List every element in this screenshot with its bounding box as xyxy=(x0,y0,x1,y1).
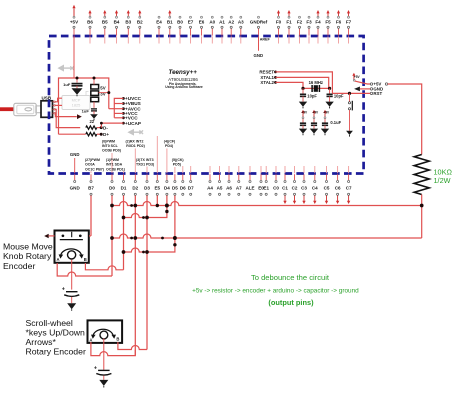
svg-text:D1: D1 xyxy=(121,185,127,190)
svg-text:E4: E4 xyxy=(156,19,162,24)
svg-text:A: A xyxy=(56,257,59,262)
svg-text:(0)PWM: (0)PWM xyxy=(102,139,115,143)
wire UVCC/VBUS bus xyxy=(114,98,123,117)
svg-text:RXD1 PD2): RXD1 PD2) xyxy=(126,144,145,148)
svg-text:E6: E6 xyxy=(199,19,205,24)
svg-text:1uF: 1uF xyxy=(63,82,71,87)
svg-text:AREF: AREF xyxy=(260,38,271,42)
svg-text:GND: GND xyxy=(254,53,264,58)
svg-text:Encoder: Encoder xyxy=(3,261,35,271)
svg-text:C3: C3 xyxy=(301,185,307,190)
pin E4 (top) xyxy=(156,16,162,43)
svg-text:+UCAP: +UCAP xyxy=(125,121,141,126)
pin C3 (bottom) xyxy=(301,166,307,204)
svg-text:INT1 SDA: INT1 SDA xyxy=(106,163,123,167)
wire USB pin2 to regulator xyxy=(55,104,62,106)
wire ENC1 pin A to D0 xyxy=(57,263,112,276)
svg-text:USB: USB xyxy=(41,95,51,100)
wire ENC2 pin A to D2 xyxy=(91,342,135,356)
svg-text:E5: E5 xyxy=(155,185,161,190)
ground (below C6) xyxy=(99,380,108,386)
wire GNDRef to GND xyxy=(258,36,260,50)
svg-text:GND: GND xyxy=(70,185,81,190)
Teensy++ board outline (dashed) xyxy=(49,36,364,174)
ground (below C1) xyxy=(72,88,83,95)
terminal +5V xyxy=(370,83,372,85)
capacitor 0.1uF #3 xyxy=(322,122,328,124)
svg-text:D-: D- xyxy=(103,125,108,130)
ground (left arrow, ENC1 switch) xyxy=(44,234,49,239)
pin D2 (bottom) xyxy=(132,149,138,356)
svg-text:RESET: RESET xyxy=(259,70,274,75)
svg-text:B3: B3 xyxy=(125,19,131,24)
ground (right-pointing, USB shield) xyxy=(77,114,82,119)
svg-text:PD4): PD4) xyxy=(165,144,173,148)
pin B4 (top) xyxy=(114,10,120,44)
svg-text:(1)PWM: (1)PWM xyxy=(106,158,119,162)
pin A4 (bottom) xyxy=(207,166,213,195)
svg-text:A0: A0 xyxy=(209,19,215,24)
pin A3 (top) xyxy=(238,16,244,43)
svg-text:Scroll-wheel: Scroll-wheel xyxy=(26,318,73,328)
wire net A (D0 row) xyxy=(112,202,422,206)
USB pin xyxy=(53,101,55,103)
USB connector J1 xyxy=(41,101,53,118)
svg-text:Using Arduino Software: Using Arduino Software xyxy=(165,85,203,89)
svg-text:Arrows*: Arrows* xyxy=(26,337,57,347)
svg-text:OC0B PD0): OC0B PD0) xyxy=(102,149,121,153)
svg-text:Rotary Encoder: Rotary Encoder xyxy=(26,347,86,357)
svg-text:D7: D7 xyxy=(188,185,194,190)
pin B3 (top) xyxy=(125,10,131,44)
pin D3 (bottom) xyxy=(144,167,150,350)
svg-text:+: + xyxy=(62,287,65,293)
svg-text:F2: F2 xyxy=(297,19,303,24)
ground (below C3) xyxy=(299,102,307,107)
svg-text:B2: B2 xyxy=(137,19,143,24)
pin F7 (top) xyxy=(346,10,352,44)
wire ENC2 pin C to cap xyxy=(103,339,105,370)
capacitor C3 10pF xyxy=(302,88,304,94)
svg-text:D6: D6 xyxy=(180,185,186,190)
pin D5 (bottom) xyxy=(172,167,178,245)
net labels +UVCC..+UCAP xyxy=(122,97,125,100)
svg-text:D0: D0 xyxy=(109,185,115,190)
terminal GND xyxy=(370,88,372,90)
svg-text:A2: A2 xyxy=(228,19,234,24)
voltage regulator U2 MCP1825 xyxy=(62,96,90,110)
+5V supply symbol 3 xyxy=(323,110,326,113)
pin D4 (bottom) xyxy=(164,149,170,212)
svg-text:1825: 1825 xyxy=(72,102,81,107)
svg-text:(5)(CK): (5)(CK) xyxy=(172,158,184,162)
svg-text:INT0 SCL: INT0 SCL xyxy=(102,144,119,148)
wire USB VBUS to regulator xyxy=(55,98,62,102)
ground (below 0.1uF #1) xyxy=(299,129,307,134)
wire rail below resistor xyxy=(421,195,423,239)
USB cable xyxy=(0,107,14,111)
svg-text:B7: B7 xyxy=(88,185,94,190)
svg-text:A7: A7 xyxy=(236,185,242,190)
svg-text:(output pins): (output pins) xyxy=(268,298,314,307)
svg-text:22: 22 xyxy=(89,119,94,124)
pin E0 (bottom) xyxy=(258,166,264,195)
pin E6 (top) xyxy=(199,16,205,43)
pin E5 (bottom) xyxy=(155,136,161,206)
wire net C (to +5V rail) xyxy=(112,234,422,238)
svg-text:*keys Up/Down: *keys Up/Down xyxy=(26,328,86,338)
svg-text:F4: F4 xyxy=(315,19,321,24)
net XTAL2 xyxy=(274,81,277,84)
wire top rail xyxy=(59,78,109,134)
svg-text:B0: B0 xyxy=(177,19,183,24)
svg-text:C6: C6 xyxy=(335,185,341,190)
ground (below C2) xyxy=(90,114,98,119)
resistor R1 10K 1/2W xyxy=(414,155,429,195)
pin GNDRef (top) xyxy=(250,16,268,43)
svg-text:B: B xyxy=(116,336,119,341)
svg-text:B1: B1 xyxy=(167,19,173,24)
svg-text:+5V: +5V xyxy=(312,110,319,114)
svg-text:+5V: +5V xyxy=(354,75,361,79)
pin C4 (bottom) xyxy=(312,166,318,204)
capacitor C4 10pF xyxy=(329,88,331,94)
svg-text:B6: B6 xyxy=(87,19,93,24)
svg-text:+5V: +5V xyxy=(301,110,308,114)
wire net D (D1/D3 row) xyxy=(124,245,175,252)
ground (below 0.1uF #3) xyxy=(321,129,329,134)
svg-text:Mouse Move: Mouse Move xyxy=(3,241,53,251)
wire selector top xyxy=(93,78,95,85)
svg-text:5V: 5V xyxy=(100,85,105,90)
pin F3 (top) xyxy=(306,16,312,43)
ground (left-pointing) xyxy=(354,87,360,92)
resistor R3 22 (D+) xyxy=(86,133,97,136)
svg-text:To debounce the circuit: To debounce the circuit xyxy=(251,273,330,282)
svg-text:A6: A6 xyxy=(226,185,232,190)
junctions on ladder xyxy=(110,204,114,208)
svg-text:10pF: 10pF xyxy=(334,93,344,98)
pin D0 (bottom) xyxy=(109,153,115,276)
no-connect arrow icon mid-left xyxy=(129,130,143,135)
svg-text:GNDRef: GNDRef xyxy=(250,19,268,24)
pin E7 (top) xyxy=(188,16,194,43)
wire +5V pin into board xyxy=(73,36,75,78)
pin F5 (top) xyxy=(325,10,331,44)
svg-text:C7: C7 xyxy=(346,185,352,190)
svg-text:OC2B PD1): OC2B PD1) xyxy=(106,167,125,171)
svg-text:(27)PWM: (27)PWM xyxy=(85,158,100,162)
pin B2 (top) xyxy=(137,10,143,44)
svg-text:F5: F5 xyxy=(325,19,331,24)
svg-text:A5: A5 xyxy=(217,185,223,190)
ground (below S1) xyxy=(346,131,353,135)
capacitor 0.1uF #2 xyxy=(311,122,317,124)
pin C7 (bottom) xyxy=(346,166,352,204)
svg-text:A4: A4 xyxy=(207,185,213,190)
pin D1 (bottom) xyxy=(121,171,127,269)
svg-text:D5: D5 xyxy=(172,185,178,190)
svg-text:F1: F1 xyxy=(286,19,292,24)
svg-text:E7: E7 xyxy=(188,19,194,24)
USB pin xyxy=(53,108,55,110)
ground (below 0.1uF #2) xyxy=(310,129,318,134)
svg-text:F6: F6 xyxy=(336,19,342,24)
pin A5 (bottom) xyxy=(217,166,223,195)
pin C5 (bottom) xyxy=(324,166,330,204)
svg-text:TXD1 PD3): TXD1 PD3) xyxy=(136,163,154,167)
svg-text:A1: A1 xyxy=(219,19,225,24)
voltage selector pads 5V/3V xyxy=(91,85,99,90)
net RESET xyxy=(274,71,277,74)
svg-text:(4)(CF): (4)(CF) xyxy=(164,139,175,143)
pin A6 (bottom) xyxy=(226,166,232,195)
pin C1 (bottom) xyxy=(282,166,288,204)
pin F6 (top) xyxy=(336,10,342,44)
ground (below C4) xyxy=(325,102,333,107)
pin B7 (bottom) xyxy=(88,171,94,236)
svg-text:+VCC: +VCC xyxy=(125,116,138,121)
pin A2 (top) xyxy=(228,16,234,43)
pin F2 (top) xyxy=(297,16,303,43)
svg-text:PD5): PD5) xyxy=(173,163,181,167)
wire AVCC xyxy=(109,108,124,110)
wire net B (D1 row) xyxy=(124,212,167,218)
svg-text:F3: F3 xyxy=(306,19,312,24)
wire ENC1 pin B to D1 xyxy=(85,263,123,270)
+5V supply symbol 2 xyxy=(312,110,315,113)
svg-text:A: A xyxy=(89,337,92,342)
USB pin xyxy=(53,112,55,114)
svg-text:+5v -> resistor -> encoder + a: +5v -> resistor -> encoder + arduino -> … xyxy=(192,288,359,295)
node D+ xyxy=(100,133,103,136)
pin B5 (top) xyxy=(102,10,108,44)
pin A7 (bottom) xyxy=(236,166,242,195)
+5V supply symbol 1 xyxy=(301,110,304,113)
svg-text:ALE: ALE xyxy=(245,185,254,190)
svg-text:+: + xyxy=(94,365,97,371)
svg-text:GND: GND xyxy=(70,152,80,157)
node D- xyxy=(100,126,103,129)
wire selector to C2 xyxy=(93,102,95,108)
wire USB D- to resistor xyxy=(55,109,80,127)
svg-text:D2: D2 xyxy=(132,185,138,190)
svg-text:D+: D+ xyxy=(103,132,109,137)
rotary encoder ENC1 (mouse move) xyxy=(55,231,89,263)
svg-text:OC1C PB7): OC1C PB7) xyxy=(85,167,104,171)
svg-text:A3: A3 xyxy=(238,19,244,24)
svg-text:C4: C4 xyxy=(312,185,318,190)
svg-text:+5V: +5V xyxy=(323,110,330,114)
svg-text:1uF: 1uF xyxy=(82,109,90,114)
svg-text:(2)RX INT2: (2)RX INT2 xyxy=(126,139,144,143)
svg-text:C5: C5 xyxy=(324,185,330,190)
pin D7 (bottom) xyxy=(188,166,194,195)
svg-text:+5V: +5V xyxy=(70,19,78,24)
pin ALE (bottom) xyxy=(245,166,254,195)
wire VCC xyxy=(114,112,123,114)
svg-text:E1: E1 xyxy=(263,185,269,190)
pin +5V (top) xyxy=(70,5,78,44)
pin C0 (bottom) xyxy=(273,166,279,195)
svg-text:C0: C0 xyxy=(273,185,279,190)
capacitor 0.1uF #1 xyxy=(300,122,306,124)
pin B0 (top) xyxy=(177,16,183,43)
wire +5V rail right xyxy=(388,84,422,155)
pin C6 (bottom) xyxy=(335,166,341,204)
wire ENC1 pin C to cap xyxy=(71,260,73,290)
svg-text:Knob Rotary: Knob Rotary xyxy=(3,251,52,261)
svg-text:F7: F7 xyxy=(346,19,352,24)
wire B7 to ENC1 switch xyxy=(89,235,91,237)
svg-text:C1: C1 xyxy=(282,185,288,190)
svg-text:10pF: 10pF xyxy=(307,93,317,98)
svg-text:(3)TX INT3: (3)TX INT3 xyxy=(136,158,154,162)
+5V supply symbol (right) xyxy=(352,73,355,76)
svg-text:F0: F0 xyxy=(276,19,282,24)
wire USB shield to ground xyxy=(55,113,77,116)
wire selector tap xyxy=(99,92,109,94)
pin F0 (top) xyxy=(276,10,282,44)
wire ENC2 pin B to D3 xyxy=(118,342,147,350)
pin E1 (bottom) xyxy=(263,166,269,195)
pushbutton S1 (reset) xyxy=(349,93,351,101)
svg-text:16 MHz: 16 MHz xyxy=(309,80,323,85)
pin D6 (bottom) xyxy=(180,166,186,195)
pin B1 (top) xyxy=(167,10,173,44)
ground (below C5) xyxy=(67,303,76,309)
USB plug xyxy=(14,103,42,115)
svg-text:C2: C2 xyxy=(292,185,298,190)
wire +5V symbol to terminal xyxy=(355,81,370,84)
wire UCAP xyxy=(101,123,123,128)
svg-text:1/2W: 1/2W xyxy=(434,176,451,185)
pin F4 (top) xyxy=(315,10,321,44)
svg-text:RST: RST xyxy=(373,91,382,96)
svg-text:B5: B5 xyxy=(102,19,108,24)
svg-text:OC0A: OC0A xyxy=(85,163,95,167)
pin A1 (top) xyxy=(219,16,225,43)
svg-text:B: B xyxy=(84,257,87,262)
svg-text:Teensy++: Teensy++ xyxy=(169,69,198,76)
USB pin xyxy=(53,104,55,106)
pin B6 (top) xyxy=(87,10,93,44)
svg-text:0.1uF: 0.1uF xyxy=(330,120,341,125)
terminal RST xyxy=(370,92,372,94)
svg-text:D4: D4 xyxy=(164,185,170,190)
pin F1 (top) xyxy=(286,10,292,44)
svg-text:B4: B4 xyxy=(114,19,120,24)
wire RST xyxy=(332,92,370,94)
svg-text:XTAL2: XTAL2 xyxy=(260,80,274,85)
wire VCC2 xyxy=(114,117,123,119)
rotary encoder ENC2 (scroll wheel) xyxy=(88,320,123,343)
pin C2 (bottom) xyxy=(292,166,298,204)
no-connect arrow icon top-left xyxy=(59,66,74,71)
net XTAL1 xyxy=(274,76,277,79)
pin GND (bottom) xyxy=(70,158,81,190)
svg-text:D3: D3 xyxy=(144,185,150,190)
pin A0 (top) xyxy=(209,16,215,43)
